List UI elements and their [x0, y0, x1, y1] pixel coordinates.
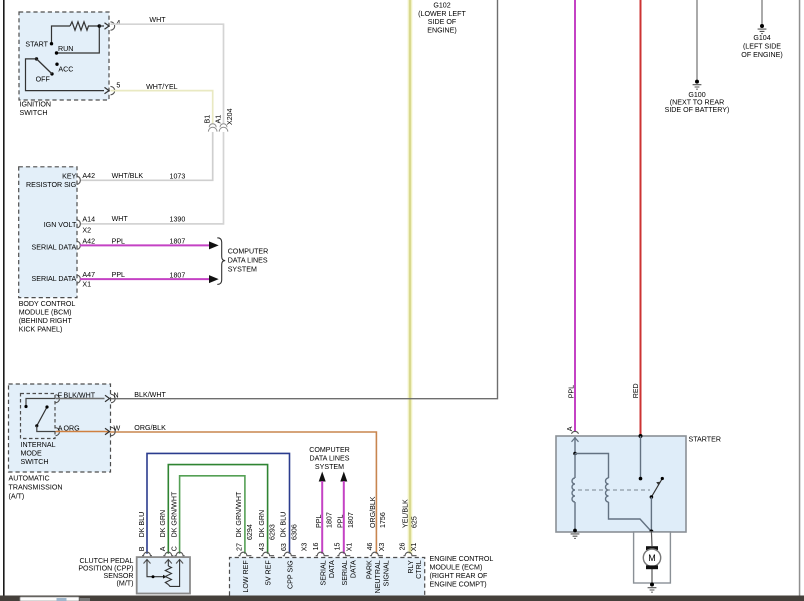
- IMS wire pin F: [26, 399, 55, 406]
- contact START: [50, 42, 53, 45]
- svg-text:DK GRN: DK GRN: [159, 510, 167, 538]
- svg-text:RUN: RUN: [58, 45, 73, 53]
- svg-text:B: B: [138, 546, 146, 551]
- svg-text:WHT: WHT: [149, 16, 166, 24]
- ground G100: [695, 80, 699, 84]
- svg-text:1807: 1807: [347, 512, 355, 528]
- svg-text:SIGNAL: SIGNAL: [382, 560, 390, 586]
- wire PPL serial data 1: [80, 244, 210, 246]
- motor terminal bottom: [646, 565, 658, 569]
- starter junction node: [573, 452, 577, 456]
- mechanical linkage dashed: [578, 489, 650, 491]
- IMS pin F bracket: [56, 395, 60, 403]
- contact OFF: [50, 72, 53, 75]
- svg-text:DK BLU: DK BLU: [138, 512, 146, 538]
- svg-text:6306: 6306: [291, 524, 299, 540]
- svg-text:TRANSMISSION: TRANSMISSION: [9, 484, 63, 492]
- svg-text:OF ENGINE): OF ENGINE): [741, 51, 782, 59]
- starter arm tip contact: [661, 477, 664, 480]
- CPP pin C connector bump: [175, 552, 185, 556]
- svg-text:SYSTEM: SYSTEM: [228, 265, 257, 273]
- svg-text:26: 26: [399, 542, 407, 550]
- BCM box: [19, 167, 77, 298]
- IMS arm bottom contact: [35, 424, 38, 427]
- svg-text:SIDE OF BATTERY): SIDE OF BATTERY): [665, 106, 730, 114]
- starter wire from RED down: [640, 436, 642, 477]
- svg-text:A: A: [566, 426, 574, 431]
- svg-text:1756: 1756: [379, 512, 387, 528]
- svg-text:ENGINE): ENGINE): [427, 27, 457, 35]
- svg-text:5V REF: 5V REF: [265, 560, 273, 586]
- CPP wiper junction: [152, 575, 155, 578]
- CPP pin C entry arrow: [176, 560, 183, 564]
- starter pin A bracket: [572, 431, 579, 433]
- CPP pin B entry arrow: [144, 560, 151, 564]
- svg-text:X3: X3: [378, 543, 386, 552]
- IMS arm top contact: [45, 405, 48, 408]
- AT pin N bracket: [111, 394, 115, 402]
- wire PPL serial data 2: [80, 278, 210, 280]
- svg-text:MODE: MODE: [21, 449, 43, 457]
- svg-text:WHT: WHT: [112, 215, 129, 223]
- starter coil 1: [572, 454, 575, 531]
- wire WHT 1390: [80, 132, 224, 224]
- svg-text:KICK PANEL): KICK PANEL): [19, 326, 63, 334]
- wire RUN to pin 4: [57, 26, 100, 53]
- svg-text:IGN VOLT: IGN VOLT: [44, 221, 77, 229]
- wire F to AT edge: [56, 398, 105, 400]
- svg-text:PPL: PPL: [337, 515, 345, 528]
- svg-text:RED: RED: [632, 383, 640, 398]
- junction RED at starter top: [639, 434, 643, 438]
- wire PPL 1807 (ECM pin 15): [343, 481, 345, 554]
- ECM pin 43 connector bump: [261, 552, 274, 556]
- wire DK GRN/WHT loop (CPP C to ECM 27): [180, 476, 245, 554]
- svg-text:1807: 1807: [170, 271, 186, 279]
- svg-text:SIDE OF: SIDE OF: [428, 18, 457, 26]
- svg-text:X1: X1: [410, 543, 418, 552]
- internal mode switch box: [21, 394, 56, 439]
- svg-text:ACC: ACC: [58, 65, 73, 73]
- pin 4 arrow: [105, 23, 110, 29]
- svg-text:PPL: PPL: [112, 237, 125, 245]
- wire START to resistor: [52, 26, 71, 44]
- svg-text:A: A: [159, 546, 167, 551]
- wire pivot to pin 5: [26, 59, 105, 91]
- switch arm: [37, 59, 53, 74]
- svg-text:5: 5: [116, 81, 120, 89]
- starter box: [556, 436, 686, 532]
- ECM pin 63 connector bump: [283, 552, 296, 556]
- wire BLK/WHT trunk (IMS N to top): [111, 0, 498, 399]
- svg-text:KEY: KEY: [62, 173, 76, 181]
- wire WHT pin4: [111, 24, 224, 123]
- svg-text:BLK/WHT: BLK/WHT: [134, 391, 166, 399]
- ground G104: [760, 24, 764, 28]
- svg-text:X3: X3: [301, 543, 309, 552]
- svg-text:B1: B1: [203, 115, 211, 124]
- ignition switch box: [19, 12, 109, 100]
- ECM box dashed border: [230, 558, 425, 596]
- svg-text:N: N: [114, 392, 119, 400]
- svg-text:X204: X204: [226, 108, 234, 125]
- arrowhead CDL 2: [340, 472, 347, 482]
- wire PPL trunk (top to starter pin A): [574, 0, 576, 431]
- CPP wire resistor to pin C: [168, 560, 179, 587]
- svg-text:WHT/BLK: WHT/BLK: [112, 172, 144, 180]
- svg-text:15: 15: [333, 542, 341, 550]
- starter pin A entry arrow: [572, 438, 579, 442]
- svg-text:PARK: PARK: [366, 560, 374, 579]
- svg-text:(LEFT SIDE: (LEFT SIDE: [743, 42, 781, 50]
- svg-text:OFF: OFF: [36, 75, 51, 83]
- svg-text:4: 4: [116, 19, 120, 27]
- ECM box fill: [230, 558, 425, 596]
- svg-text:A14: A14: [82, 216, 95, 224]
- pin 5 arrow: [105, 87, 110, 93]
- svg-text:BODY CONTROL: BODY CONTROL: [19, 300, 76, 308]
- ECM pin 26 connector bump: [404, 552, 417, 556]
- starter wire contact to motor junction: [650, 497, 652, 532]
- CPP wire pin A to resistor: [167, 560, 169, 567]
- svg-text:RLY: RLY: [407, 560, 415, 574]
- pin A42 serial bracket: [77, 241, 80, 249]
- contact ACC: [55, 62, 58, 65]
- wire WHT/BLK 1073: [80, 132, 213, 180]
- svg-text:YEL/BLK: YEL/BLK: [402, 499, 410, 528]
- svg-text:DK BLU: DK BLU: [280, 512, 288, 538]
- pin A14 bracket: [77, 220, 80, 228]
- svg-text:DATA LINES: DATA LINES: [228, 256, 268, 264]
- svg-text:1807: 1807: [326, 512, 334, 528]
- svg-text:M: M: [648, 553, 656, 563]
- svg-text:625: 625: [411, 516, 419, 528]
- svg-text:NEUTRAL: NEUTRAL: [374, 560, 382, 593]
- resistor in ignition switch: [70, 22, 99, 30]
- svg-text:A1: A1: [214, 115, 222, 124]
- wire A to AT edge (ORG): [56, 431, 111, 434]
- IMS switch arm: [37, 407, 47, 426]
- svg-text:43: 43: [258, 543, 266, 551]
- AT pin W bracket: [111, 427, 115, 435]
- AT pin N arrow: [105, 395, 110, 401]
- svg-text:ENGINE COMPT): ENGINE COMPT): [430, 581, 487, 589]
- svg-text:PPL: PPL: [112, 271, 125, 279]
- svg-text:(M/T): (M/T): [117, 579, 134, 587]
- svg-text:COMPUTER: COMPUTER: [228, 248, 269, 256]
- pin 5 bracket: [111, 86, 115, 94]
- svg-text:RESISTOR SIG: RESISTOR SIG: [26, 181, 76, 189]
- wire WHT/YEL pin5: [111, 91, 213, 124]
- svg-text:START: START: [25, 41, 48, 49]
- motor terminal top: [646, 546, 658, 550]
- brace computer data lines: [217, 238, 225, 285]
- starter wire pin A down: [574, 437, 576, 454]
- left window border: [3, 0, 5, 601]
- svg-text:DATA: DATA: [328, 560, 336, 578]
- svg-text:SERIAL DATA: SERIAL DATA: [31, 275, 76, 283]
- svg-text:A47: A47: [82, 271, 95, 279]
- svg-text:CPP SIG: CPP SIG: [287, 560, 295, 589]
- wire to G104: [761, 0, 763, 25]
- svg-text:SERIAL: SERIAL: [341, 560, 349, 585]
- connector X204 terminal B1: [208, 124, 217, 132]
- ECM pin 27 connector bump: [238, 552, 251, 556]
- starter coil 2: [606, 478, 652, 532]
- starter switch arm: [651, 479, 662, 498]
- svg-text:63: 63: [280, 543, 288, 551]
- CPP wiper arrowhead: [163, 575, 167, 579]
- svg-text:6294: 6294: [246, 524, 254, 540]
- right window border: [799, 0, 801, 601]
- svg-text:X1: X1: [346, 543, 354, 552]
- svg-text:A42: A42: [82, 237, 95, 245]
- svg-text:SWITCH: SWITCH: [20, 109, 48, 117]
- svg-text:COMPUTER: COMPUTER: [309, 446, 350, 454]
- ground at motor: [650, 583, 654, 587]
- CPP pin B connector bump: [142, 552, 152, 556]
- svg-text:SERIAL DATA: SERIAL DATA: [31, 244, 76, 252]
- svg-text:MODULE (BCM): MODULE (BCM): [19, 309, 72, 317]
- motor M: [643, 549, 660, 566]
- svg-text:A42: A42: [82, 172, 95, 180]
- svg-text:ENGINE CONTROL: ENGINE CONTROL: [430, 555, 494, 563]
- svg-text:DATA: DATA: [349, 560, 357, 578]
- IMS pin A bracket: [56, 428, 60, 436]
- svg-text:G102: G102: [433, 1, 450, 9]
- starter wire to second coil: [575, 454, 609, 479]
- motor housing: [634, 532, 671, 583]
- svg-text:(BEHIND RIGHT: (BEHIND RIGHT: [19, 317, 73, 325]
- svg-text:(LOWER LEFT: (LOWER LEFT: [418, 10, 466, 18]
- svg-text:ORG/BLK: ORG/BLK: [369, 496, 377, 528]
- IMS contact F side: [24, 405, 27, 408]
- svg-text:DK GRN/WHT: DK GRN/WHT: [170, 491, 178, 537]
- CPP pin A connector bump: [163, 552, 173, 556]
- connector X204 terminal A1: [219, 124, 228, 132]
- ECM pin 15 connector bump: [337, 552, 350, 556]
- wire ORG/BLK (IMS W to ECM pin 46): [111, 432, 377, 554]
- wire PPL 1807 (ECM pin 16): [321, 481, 323, 554]
- svg-text:6293: 6293: [269, 524, 277, 540]
- A/T box: [9, 384, 111, 472]
- svg-text:IGNITION: IGNITION: [20, 100, 52, 108]
- svg-text:SWITCH: SWITCH: [21, 458, 49, 466]
- starter arm tip arrowhead: [656, 482, 660, 486]
- svg-text:SYSTEM: SYSTEM: [315, 463, 344, 471]
- CPP pin A entry arrow: [165, 560, 172, 564]
- svg-text:LOW REF: LOW REF: [242, 560, 250, 593]
- starter moving contact: [650, 495, 654, 499]
- bottom bar button: [20, 597, 79, 601]
- svg-text:PPL: PPL: [568, 385, 576, 398]
- ECM pin 16 connector bump: [316, 552, 329, 556]
- svg-text:STARTER: STARTER: [689, 436, 721, 444]
- svg-text:46: 46: [366, 542, 374, 550]
- svg-text:X2: X2: [82, 226, 91, 234]
- svg-text:C: C: [170, 546, 178, 551]
- svg-text:(A/T): (A/T): [9, 492, 25, 500]
- svg-text:(RIGHT REAR OF: (RIGHT REAR OF: [430, 572, 488, 580]
- CPP resistor: [165, 566, 171, 585]
- wire RED trunk (top to starter): [640, 0, 642, 436]
- AT pin W arrow: [105, 428, 110, 434]
- IMS wire pin A: [37, 426, 55, 432]
- switch pivot contact: [35, 57, 38, 60]
- svg-text:AUTOMATIC: AUTOMATIC: [9, 475, 50, 483]
- svg-text:ORG/BLK: ORG/BLK: [134, 424, 166, 432]
- contact RUN: [55, 51, 58, 54]
- svg-text:DATA LINES: DATA LINES: [310, 454, 350, 462]
- svg-text:INTERNAL: INTERNAL: [21, 441, 56, 449]
- wire to G100: [696, 0, 698, 80]
- bottom bar: [0, 596, 804, 601]
- pin A47 bracket: [77, 275, 80, 283]
- ground at starter coil 1: [573, 529, 577, 533]
- svg-text:CTRL: CTRL: [415, 560, 423, 579]
- junction node at starter bottom: [649, 530, 653, 534]
- CPP sensor box: [137, 557, 190, 593]
- CPP wiper wire from pin B: [147, 560, 164, 577]
- wire DK BLU loop (CPP B to ECM 63): [147, 453, 290, 553]
- svg-text:SERIAL: SERIAL: [320, 560, 328, 585]
- wire junction to pin 4: [99, 25, 104, 27]
- pin 4 bracket: [111, 22, 115, 30]
- svg-text:16: 16: [312, 542, 320, 550]
- svg-text:W: W: [114, 425, 121, 433]
- svg-text:1073: 1073: [170, 172, 186, 180]
- svg-text:G104: G104: [753, 34, 770, 42]
- motor feed wire: [650, 532, 653, 585]
- starter fixed contact: [639, 477, 643, 481]
- svg-text:X1: X1: [82, 281, 91, 289]
- arrowhead CDL 1: [319, 472, 326, 482]
- svg-text:PPL: PPL: [315, 515, 323, 528]
- arrowhead serial data 2: [209, 275, 219, 283]
- arrowhead serial data 1: [209, 241, 219, 249]
- wire DK GRN loop (CPP A to ECM 43): [168, 465, 267, 554]
- svg-text:DK GRN/WHT: DK GRN/WHT: [235, 491, 243, 537]
- svg-text:1390: 1390: [170, 216, 186, 224]
- svg-text:27: 27: [235, 543, 243, 551]
- svg-text:DK GRN: DK GRN: [258, 510, 266, 538]
- wire YEL/BLK 625 trunk (top to ECM pin 26): [408, 0, 413, 554]
- junction node at resistor output: [98, 24, 102, 28]
- ECM pin 46 connector bump: [370, 552, 383, 556]
- pin A42 bracket: [77, 176, 80, 184]
- svg-text:MODULE (ECM): MODULE (ECM): [430, 564, 483, 572]
